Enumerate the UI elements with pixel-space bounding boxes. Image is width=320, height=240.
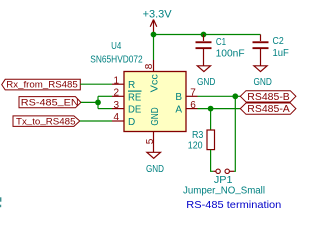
svg-text:C1: C1 bbox=[216, 37, 227, 48]
svg-text:Jumper_NO_Small: Jumper_NO_Small bbox=[183, 184, 265, 197]
svg-text:6: 6 bbox=[190, 100, 196, 111]
svg-text:U4: U4 bbox=[111, 41, 122, 52]
svg-text:GND: GND bbox=[146, 164, 164, 175]
hierarchical label RS-485_EN bbox=[19, 96, 81, 108]
wire pin6 to RS485-A bbox=[198, 108, 241, 110]
hierarchical label Tx_to_RS485 bbox=[13, 115, 80, 126]
svg-text:1: 1 bbox=[113, 75, 119, 86]
wire pin7 to RS485-B bbox=[198, 95, 241, 97]
ground C1 bbox=[197, 66, 215, 88]
svg-text:RS-485_EN: RS-485_EN bbox=[21, 96, 79, 107]
pin 4 D bbox=[112, 112, 135, 128]
svg-text:5: 5 bbox=[145, 138, 156, 144]
pin 2 RE bbox=[112, 88, 142, 104]
capacitor C2 bbox=[253, 35, 289, 66]
svg-text:RS485-A: RS485-A bbox=[247, 104, 290, 115]
svg-text:120: 120 bbox=[188, 141, 203, 152]
hierarchical label RS485-A bbox=[240, 103, 296, 115]
wire +3.3V rail bbox=[154, 34, 261, 36]
pin 8 Vcc bbox=[144, 60, 160, 92]
jumper JP1 bbox=[183, 169, 265, 196]
junction B termination bbox=[232, 93, 238, 99]
wire Vcc drop to U4 pin 8 bbox=[153, 35, 155, 61]
pin 1 R bbox=[112, 75, 135, 91]
svg-text:R: R bbox=[128, 80, 135, 91]
svg-text:DE: DE bbox=[128, 105, 142, 116]
svg-text:GND: GND bbox=[254, 77, 272, 88]
svg-text:D: D bbox=[128, 117, 135, 128]
capacitor C1 bbox=[196, 35, 245, 66]
junction A termination bbox=[208, 106, 214, 112]
pin 3 DE bbox=[112, 100, 142, 116]
svg-text:R3: R3 bbox=[192, 130, 204, 141]
IC U4 SN65HVD072 transceiver body bbox=[90, 41, 186, 132]
svg-text:GND: GND bbox=[150, 107, 161, 125]
svg-text:Vcc: Vcc bbox=[150, 74, 161, 92]
junction power rail at pin8 bbox=[151, 32, 157, 38]
wire to pin2 bbox=[98, 95, 112, 97]
svg-text:GND: GND bbox=[197, 77, 215, 88]
svg-text:C2: C2 bbox=[273, 36, 285, 47]
ground C2 bbox=[254, 66, 272, 88]
svg-text:4: 4 bbox=[113, 112, 119, 123]
svg-text:RS-485 termination: RS-485 termination bbox=[186, 199, 281, 211]
wire to pin3 bbox=[98, 108, 112, 110]
svg-text:Tx_to_RS485: Tx_to_RS485 bbox=[16, 115, 76, 126]
pin 5 GND bbox=[145, 107, 161, 152]
svg-text:A: A bbox=[175, 105, 182, 116]
svg-text:100nF: 100nF bbox=[216, 49, 245, 60]
edge text fragment top bbox=[0, 197, 1, 201]
wire junction B down to jumper right bbox=[234, 96, 235, 171]
svg-text:B: B bbox=[175, 92, 182, 103]
wire label2 to junction bbox=[81, 101, 98, 103]
svg-text:+3.3V: +3.3V bbox=[143, 9, 173, 21]
svg-text:RS485-B: RS485-B bbox=[247, 92, 290, 103]
svg-text:3: 3 bbox=[113, 100, 119, 111]
wire pin4 bbox=[80, 120, 112, 122]
hierarchical label RS485-B bbox=[240, 91, 296, 103]
svg-text:8: 8 bbox=[144, 63, 155, 69]
svg-text:SN65HVD072: SN65HVD072 bbox=[90, 54, 143, 65]
svg-text:RE: RE bbox=[128, 92, 142, 103]
hierarchical label Rx_from_RS485 bbox=[2, 78, 81, 90]
edge text fragment bottom bbox=[0, 205, 1, 208]
ground pin5 bbox=[146, 152, 164, 175]
pin 7 B bbox=[175, 88, 197, 104]
pin 6 A bbox=[175, 100, 197, 116]
svg-text:7: 7 bbox=[190, 88, 196, 99]
junction C1 tap bbox=[201, 32, 207, 38]
wire pin1 bbox=[80, 83, 112, 85]
wire vertical pin2-pin3 tie bbox=[97, 96, 99, 108]
junction EN tie bbox=[95, 100, 101, 106]
svg-text:2: 2 bbox=[113, 88, 119, 99]
svg-text:1uF: 1uF bbox=[273, 48, 289, 59]
svg-text:Rx_from_RS485: Rx_from_RS485 bbox=[6, 78, 78, 89]
power +3.3V bbox=[143, 9, 173, 35]
resistor R3 bbox=[188, 130, 215, 152]
wire R3 bottom to jumper bbox=[211, 150, 214, 172]
wire junction A down to R3 bbox=[210, 109, 212, 130]
